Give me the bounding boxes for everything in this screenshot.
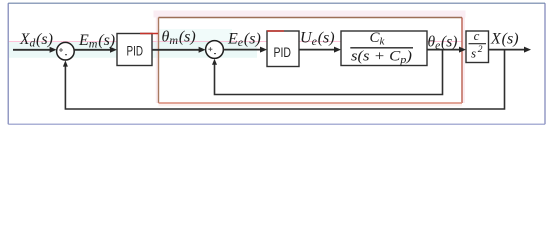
svg-text:X(s): X(s) [490,31,519,48]
svg-text:θm(s): θm(s) [162,29,196,48]
summing junction S2 [206,41,224,59]
S1 minus sign [65,54,67,56]
red inner-loop box [159,18,463,104]
svg-text:θe(s): θe(s) [428,34,458,53]
svg-text:Xd(s): Xd(s) [19,31,53,50]
S2 minus sign [214,53,216,55]
pink fringe below red box [159,104,463,107]
block PID1 [117,34,152,66]
PID2 top edge red artifact [267,30,284,32]
svg-text:Ee(s): Ee(s) [227,31,261,50]
wire PID2 to plant [299,47,341,53]
svg-text:Ue(s): Ue(s) [300,30,335,49]
pink line artifact [9,41,462,42]
wire S1 to PID1 [74,47,117,53]
svg-text:PID: PID [274,44,292,60]
svg-text:c: c [474,28,480,43]
S1 plus sign [59,48,63,52]
outer blue frame [8,3,545,124]
wire PID1 to S2 [152,47,206,53]
block integrator c/s2 [466,31,489,63]
pink fringe right of red box [463,18,465,104]
block plant Ck [341,31,427,66]
outer feedback wire [63,50,505,109]
S2 plus sign [208,47,212,51]
PID1 top edge red artifact [140,33,158,35]
cyan band artifact left [9,42,257,58]
wire S2 to PID2 [223,47,267,53]
block PID2 [267,31,299,67]
inner feedback wire [212,50,443,95]
wire plant to integrator with inner tap [427,47,466,53]
pink halo above red box [154,11,466,18]
summing junction S1 [57,42,75,60]
wire input Xd [13,47,57,53]
svg-text:PID: PID [127,42,144,58]
integrator fraction bar [469,43,487,45]
wire output X(s) with outer tap [489,47,532,53]
cyan band artifact theta_m [158,29,232,44]
plant fraction bar [350,47,413,49]
pink fringe left of red box [156,18,158,104]
